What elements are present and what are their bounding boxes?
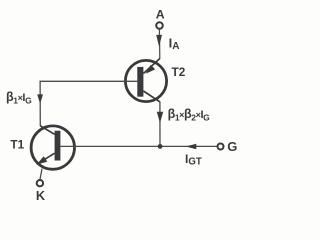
wire left vertical down to T1 collector bbox=[39, 81, 41, 127]
svg-text:β1×β2×IG: β1×β2×IG bbox=[168, 107, 211, 123]
transistor T2 (PNP) bbox=[125, 59, 166, 102]
wire T2 base to left corner bbox=[40, 80, 138, 82]
svg-text:G: G bbox=[227, 139, 237, 154]
current arrow I_GT (pointing left) bbox=[186, 144, 197, 149]
wire A to T2 emitter bbox=[158, 29, 160, 59]
current arrow beta1 x IG bbox=[37, 94, 43, 103]
node A bbox=[156, 7, 165, 28]
wire T1 base / gate line to G bbox=[60, 145, 217, 147]
svg-text:β1×IG: β1×IG bbox=[6, 90, 32, 106]
junction node bbox=[158, 144, 163, 149]
current arrow I_A bbox=[156, 35, 162, 47]
svg-text:T1: T1 bbox=[10, 137, 24, 151]
wire T2 collector down to junction bbox=[159, 102, 161, 147]
current arrow beta1 beta2 IG bbox=[157, 112, 163, 123]
node G bbox=[218, 139, 238, 154]
svg-text:T2: T2 bbox=[172, 65, 186, 79]
transistor T1 (NPN) bbox=[31, 126, 74, 170]
svg-text:K: K bbox=[36, 188, 46, 203]
svg-text:IA: IA bbox=[169, 36, 180, 53]
svg-text:IGT: IGT bbox=[185, 152, 202, 168]
svg-text:A: A bbox=[156, 7, 165, 21]
wire T1 emitter to K bbox=[40, 169, 42, 180]
node K bbox=[36, 180, 46, 203]
